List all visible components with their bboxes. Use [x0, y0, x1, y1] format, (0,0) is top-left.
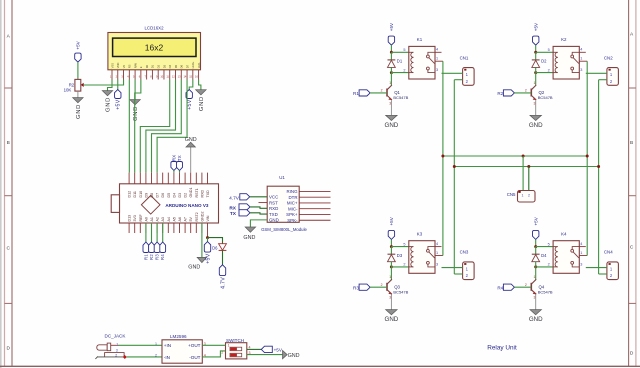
svg-text:C: C	[6, 245, 10, 251]
svg-text:2: 2	[548, 68, 550, 72]
svg-text:D9: D9	[144, 193, 148, 198]
svg-text:3: 3	[389, 296, 391, 300]
svg-text:GND: GND	[529, 122, 543, 129]
svg-text:D1: D1	[397, 59, 403, 64]
svg-text:MIC+: MIC+	[287, 201, 298, 206]
svg-text:C: C	[630, 244, 634, 250]
svg-text:D6: D6	[212, 246, 218, 251]
svg-text:+5V: +5V	[389, 216, 394, 225]
svg-text:3: 3	[436, 68, 438, 72]
svg-text:1: 1	[522, 194, 524, 198]
svg-text:2: 2	[381, 283, 383, 287]
svg-text:LED+: LED+	[191, 61, 195, 68]
svg-text:GND: GND	[243, 235, 255, 241]
svg-text:R4: R4	[497, 285, 503, 290]
svg-text:+OUT: +OUT	[188, 343, 201, 348]
svg-text:4: 4	[436, 242, 438, 246]
svg-text:GND: GND	[385, 122, 399, 129]
svg-text:D4: D4	[172, 193, 176, 198]
svg-text:1: 1	[534, 275, 536, 279]
svg-text:K1: K1	[417, 37, 423, 42]
svg-text:GND: GND	[133, 106, 139, 121]
svg-text:1: 1	[116, 342, 118, 346]
svg-text:D2: D2	[156, 64, 160, 68]
svg-text:A3: A3	[161, 217, 165, 221]
svg-text:GSM_SIM800L_Module: GSM_SIM800L_Module	[261, 227, 307, 232]
svg-text:R2: R2	[149, 254, 154, 260]
svg-text:GND: GND	[288, 353, 300, 359]
svg-text:D0: D0	[145, 64, 149, 68]
svg-text:BC547B: BC547B	[393, 95, 408, 100]
svg-text:+5V: +5V	[389, 22, 394, 31]
svg-text:D7: D7	[185, 64, 189, 68]
svg-text:+5V: +5V	[187, 99, 193, 110]
svg-text:3: 3	[436, 262, 438, 266]
svg-text:2: 2	[115, 353, 117, 357]
svg-text:R1: R1	[353, 91, 359, 96]
svg-text:D7: D7	[156, 193, 160, 198]
svg-text:4.7V: 4.7V	[229, 196, 240, 202]
svg-text:LCD16X2: LCD16X2	[144, 26, 164, 31]
svg-text:3: 3	[534, 101, 536, 105]
svg-text:3: 3	[534, 296, 536, 300]
svg-text:2: 2	[525, 283, 527, 287]
svg-text:ARDUINO NANO V3: ARDUINO NANO V3	[165, 203, 209, 208]
svg-text:16x2: 16x2	[145, 43, 164, 53]
svg-text:D11: D11	[133, 191, 137, 197]
svg-text:2: 2	[548, 263, 550, 267]
svg-text:2: 2	[525, 89, 527, 93]
svg-text:R3: R3	[155, 254, 160, 260]
svg-text:GND: GND	[529, 316, 543, 323]
svg-text:4: 4	[580, 48, 582, 52]
svg-text:SPK+: SPK+	[286, 212, 298, 217]
svg-text:GND: GND	[385, 316, 399, 323]
svg-text:GND1: GND1	[189, 188, 193, 198]
svg-text:D8: D8	[150, 193, 154, 198]
svg-text:10K: 10K	[64, 88, 72, 93]
svg-text:RS: RS	[128, 64, 132, 68]
svg-text:RING: RING	[287, 189, 299, 194]
svg-text:K4: K4	[561, 231, 567, 236]
svg-text:DTR: DTR	[288, 195, 297, 200]
svg-text:LED-: LED-	[197, 62, 201, 68]
svg-text:K2: K2	[561, 37, 567, 42]
svg-text:5V: 5V	[189, 217, 193, 222]
svg-text:D4: D4	[168, 64, 172, 68]
svg-text:RXD: RXD	[269, 206, 278, 211]
svg-text:GND: GND	[106, 97, 112, 112]
svg-text:VDD: VDD	[116, 63, 120, 69]
svg-text:3: 3	[116, 349, 118, 353]
svg-text:A2: A2	[156, 217, 160, 221]
svg-text:B: B	[7, 140, 10, 146]
svg-text:RXD: RXD	[200, 190, 204, 198]
svg-text:Relay Unit: Relay Unit	[487, 345, 517, 352]
svg-text:1: 1	[580, 251, 582, 255]
svg-text:1: 1	[389, 275, 391, 279]
svg-text:BC547B: BC547B	[538, 289, 553, 294]
svg-text:1: 1	[436, 57, 438, 61]
svg-text:A1: A1	[150, 217, 154, 221]
svg-text:3: 3	[580, 262, 582, 266]
svg-text:VIN: VIN	[206, 215, 210, 221]
svg-text:R1: R1	[143, 254, 148, 260]
svg-text:-IN: -IN	[164, 355, 170, 360]
svg-text:GND: GND	[188, 264, 200, 270]
svg-text:TXD: TXD	[269, 212, 278, 217]
svg-text:2: 2	[155, 353, 157, 357]
svg-text:V0: V0	[122, 65, 126, 69]
svg-text:TX: TX	[230, 211, 237, 217]
svg-text:1: 1	[389, 81, 391, 85]
svg-text:D1: D1	[151, 64, 155, 68]
svg-text:B: B	[630, 140, 633, 146]
svg-text:D6: D6	[180, 64, 184, 68]
svg-text:3V3: 3V3	[133, 215, 137, 221]
svg-text:+5V: +5V	[205, 253, 211, 264]
svg-text:3: 3	[389, 101, 391, 105]
svg-text:3: 3	[249, 351, 251, 355]
svg-text:R4: R4	[160, 254, 165, 260]
svg-text:CN3: CN3	[460, 250, 469, 255]
svg-text:1: 1	[228, 343, 230, 347]
svg-text:D5: D5	[167, 193, 171, 198]
svg-text:VCC: VCC	[269, 195, 278, 200]
svg-text:+5V: +5V	[533, 216, 538, 225]
svg-text:2: 2	[381, 89, 383, 93]
svg-text:2: 2	[528, 194, 530, 198]
svg-text:D2: D2	[184, 193, 188, 198]
svg-text:RST1: RST1	[195, 188, 199, 197]
svg-text:A0: A0	[144, 217, 148, 221]
svg-text:R3: R3	[353, 285, 359, 290]
svg-text:MIC-: MIC-	[288, 206, 298, 211]
svg-text:D3: D3	[397, 253, 403, 258]
svg-text:D3: D3	[178, 193, 182, 198]
svg-text:BC547B: BC547B	[538, 95, 553, 100]
svg-text:R/W: R/W	[133, 63, 137, 69]
svg-text:CN5: CN5	[507, 192, 516, 197]
svg-text:5: 5	[548, 242, 550, 246]
svg-text:5: 5	[403, 48, 405, 52]
svg-text:RST: RST	[269, 200, 278, 205]
svg-text:3: 3	[580, 68, 582, 72]
svg-text:SWITCH: SWITCH	[226, 338, 244, 343]
svg-text:D: D	[6, 345, 10, 351]
svg-text:+5V: +5V	[274, 348, 283, 353]
svg-text:GND: GND	[76, 104, 82, 119]
svg-text:D5: D5	[174, 64, 178, 68]
svg-text:+5V: +5V	[533, 22, 538, 31]
svg-text:DC_JACK: DC_JACK	[105, 334, 127, 339]
svg-text:2: 2	[403, 68, 405, 72]
svg-text:CN2: CN2	[604, 55, 613, 60]
svg-text:TX: TX	[177, 155, 182, 161]
svg-text:E: E	[139, 66, 143, 68]
svg-text:VSS: VSS	[110, 63, 114, 69]
svg-text:SPK-: SPK-	[287, 218, 298, 223]
svg-text:1: 1	[580, 57, 582, 61]
svg-text:A6: A6	[178, 217, 182, 221]
svg-text:4: 4	[249, 346, 251, 350]
svg-text:4.7V: 4.7V	[220, 277, 226, 289]
svg-text:D: D	[630, 350, 634, 356]
svg-text:4: 4	[580, 242, 582, 246]
svg-text:D4: D4	[541, 253, 547, 258]
svg-text:R2: R2	[497, 91, 503, 96]
svg-text:5: 5	[548, 48, 550, 52]
svg-text:1: 1	[436, 251, 438, 255]
svg-text:RST2: RST2	[195, 212, 199, 221]
svg-text:U1: U1	[279, 175, 285, 180]
svg-text:+IN: +IN	[164, 343, 171, 348]
svg-text:TXD: TXD	[206, 190, 210, 198]
svg-text:CN4: CN4	[604, 250, 613, 255]
svg-text:4: 4	[436, 48, 438, 52]
svg-text:REF: REF	[139, 214, 143, 222]
svg-text:+5V: +5V	[116, 99, 122, 110]
svg-text:D2: D2	[541, 59, 547, 64]
svg-text:GND: GND	[185, 137, 197, 143]
svg-text:D13: D13	[128, 215, 132, 222]
svg-text:GND: GND	[199, 96, 205, 111]
svg-text:D3: D3	[162, 64, 166, 68]
svg-text:RX: RX	[172, 155, 177, 161]
svg-text:RX: RX	[229, 205, 236, 211]
svg-text:1: 1	[534, 81, 536, 85]
svg-text:A4: A4	[167, 217, 171, 221]
svg-text:GND: GND	[269, 218, 279, 223]
svg-text:A7: A7	[184, 217, 188, 221]
svg-text:-OUT: -OUT	[189, 355, 200, 360]
svg-text:D6: D6	[161, 193, 165, 198]
svg-text:2: 2	[403, 263, 405, 267]
svg-text:BC547B: BC547B	[393, 289, 408, 294]
svg-text:CN1: CN1	[460, 55, 469, 60]
svg-text:A5: A5	[172, 217, 176, 221]
svg-text:2: 2	[221, 350, 223, 354]
svg-text:LM2596: LM2596	[170, 334, 187, 339]
svg-text:D12: D12	[128, 191, 132, 198]
svg-text:5: 5	[403, 242, 405, 246]
svg-text:D10: D10	[139, 191, 143, 198]
svg-text:GND2: GND2	[200, 212, 204, 222]
svg-text:+5V: +5V	[76, 40, 81, 49]
svg-text:1: 1	[155, 342, 157, 346]
svg-text:K3: K3	[417, 231, 423, 236]
